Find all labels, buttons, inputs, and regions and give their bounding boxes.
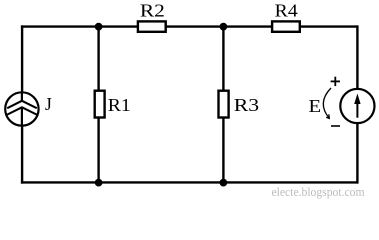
svg-text:electe.blogspot.com: electe.blogspot.com xyxy=(272,185,365,199)
node bottom-right junction xyxy=(220,179,228,187)
node top-left junction xyxy=(95,23,103,31)
minus sign xyxy=(331,125,340,127)
svg-text:J: J xyxy=(45,94,52,114)
svg-text:R1: R1 xyxy=(108,95,131,115)
node top-right junction xyxy=(220,23,228,31)
wire right xyxy=(356,25,358,183)
resistor R2 xyxy=(138,21,166,31)
voltage source E xyxy=(340,89,374,123)
wire left xyxy=(21,25,23,183)
resistor R3 xyxy=(219,91,229,118)
svg-text:E: E xyxy=(309,96,322,116)
resistor R1 xyxy=(95,91,105,118)
current source J xyxy=(5,92,38,127)
resistor R4 xyxy=(272,21,300,31)
svg-text:R2: R2 xyxy=(140,1,165,21)
wire bottom xyxy=(21,181,358,183)
svg-text:R3: R3 xyxy=(234,95,259,115)
node bottom-left junction xyxy=(95,179,103,187)
wire R1 branch xyxy=(97,27,99,183)
wire top xyxy=(21,25,358,27)
svg-text:R4: R4 xyxy=(275,1,298,21)
wire R3 branch xyxy=(222,27,224,183)
polarity arc arrow xyxy=(323,88,331,118)
plus sign xyxy=(331,77,340,86)
